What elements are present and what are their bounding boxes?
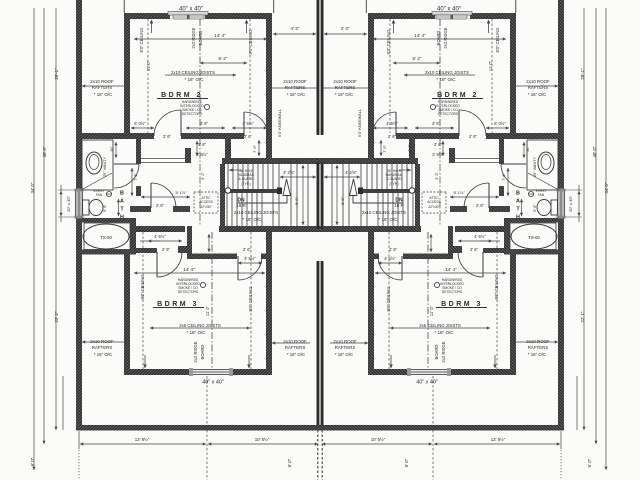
svg-text:7' 6": 7' 6"	[501, 173, 506, 181]
svg-text:* 16" O/C: * 16" O/C	[287, 92, 305, 97]
svg-text:* 16" O/C: * 16" O/C	[436, 77, 456, 82]
extension line above bedroom2 right corner	[273, 0, 275, 13]
svg-text:2x10 ROOF: 2x10 ROOF	[90, 79, 114, 84]
wall: bedroom 3 north segment under stairs	[219, 226, 323, 232]
bottom dimension line 10'5	[208, 443, 318, 445]
wall: tub room south wall	[82, 250, 136, 255]
roof rafter arrow upper left	[82, 85, 130, 87]
svg-text:2' 6": 2' 6"	[162, 247, 171, 252]
svg-text:B: B	[120, 190, 124, 196]
wall: bedroom 3 north segment under stairs (mirrored)	[317, 226, 421, 232]
dimension line window 30x40	[60, 191, 62, 216]
door: bath door	[114, 163, 139, 165]
kneewall arrow down bedroom3 left (mirrored)	[494, 355, 496, 367]
svg-text:2x6 CEILING JOISTS: 2x6 CEILING JOISTS	[179, 323, 221, 328]
svg-text:BDRM 2: BDRM 2	[437, 92, 479, 99]
dimension line 5-6 toilet (mirrored)	[521, 199, 523, 216]
svg-text:8'0" CEILING: 8'0" CEILING	[386, 30, 391, 55]
svg-text:13' 8½": 13' 8½"	[491, 437, 506, 442]
wall: bedroom 3 closet divider wall	[187, 226, 192, 259]
wall: hall south segment right of bdrm3 door	[173, 206, 190, 212]
svg-text:RAFTERS: RAFTERS	[285, 85, 306, 90]
wall: hall north jamb (mirrored)	[449, 148, 455, 163]
stairs: lower treads	[227, 193, 262, 226]
svg-text:BDRM 3: BDRM 3	[157, 301, 199, 308]
wall: tub room south wall (mirrored)	[504, 250, 558, 255]
roof rafter arrow mid (mirrored)	[323, 87, 368, 89]
svg-text:7' 0": 7' 0"	[382, 145, 387, 153]
dimension vertical closet 2-6	[208, 234, 210, 252]
svg-text:BOARD: BOARD	[200, 345, 205, 360]
kneewall arrow down bedroom3 right (mirrored)	[390, 355, 392, 367]
dimension line 14'4 bedroom2	[134, 38, 267, 40]
svg-text:11' 0": 11' 0"	[488, 60, 493, 71]
svg-text:3' 2": 3' 2"	[200, 172, 205, 180]
svg-text:8'0" CEILING: 8'0" CEILING	[495, 28, 500, 53]
extension line above bedroom2 left corner	[123, 0, 125, 13]
roof rafter arrow lower left (mirrored)	[512, 341, 558, 343]
svg-text:28'-1": 28'-1"	[580, 68, 585, 80]
extension line above bedroom2 left corner (mirrored)	[515, 0, 517, 13]
bottom dimension line 13'8	[80, 443, 206, 445]
wall: party wall upper segment (mirrored)	[321, 0, 323, 135]
dimension line 36 vanity (mirrored)	[523, 142, 525, 158]
svg-text:BOARD: BOARD	[434, 345, 439, 360]
svg-text:2' 6": 2' 6"	[469, 134, 478, 139]
svg-text:* 16" O/C: * 16" O/C	[528, 92, 546, 97]
window: 40x40 window in bedroom 2 top wall	[168, 12, 208, 20]
svg-text:14' 4": 14' 4"	[183, 267, 195, 272]
svg-text:B: B	[516, 190, 520, 196]
underline BDRM 3 left	[153, 307, 204, 309]
svg-text:4' 5½": 4' 5½"	[242, 121, 254, 126]
door: bath door (mirrored)	[501, 163, 526, 165]
svg-text:13' 8½": 13' 8½"	[135, 437, 150, 442]
wall: tub room north wall	[82, 218, 136, 223]
dimension line 14'4 bedroom3	[134, 272, 265, 274]
svg-text:(TYP.): (TYP.)	[389, 182, 398, 186]
door: bedroom 2 door (mirrored)	[458, 110, 460, 136]
wall: stairwell north wall	[222, 158, 323, 164]
svg-text:2x10 CEILING JOISTS: 2x10 CEILING JOISTS	[234, 210, 278, 215]
fixture: exhaust fan symbol	[106, 191, 111, 196]
svg-text:25" VANITY: 25" VANITY	[103, 157, 107, 178]
svg-text:2x10 ROOF: 2x10 ROOF	[526, 79, 550, 84]
svg-text:6' 0½": 6' 0½"	[134, 121, 146, 126]
dimension vertical 2'6.5 hall	[196, 141, 198, 156]
dimension vertical 7'6 bath (mirrored)	[507, 168, 509, 196]
bottom extension line under wall (mirrored)	[560, 431, 562, 449]
window: 30x40 opening in left wall (mirrored)	[557, 189, 566, 219]
door: bedroom 3 hall door (mirrored)	[488, 183, 490, 208]
margin line 48'0	[43, 8, 45, 444]
svg-text:2' 6": 2' 6"	[163, 134, 172, 139]
margin line 28'1 (mirrored)	[583, 8, 585, 430]
svg-text:5' 1⅞": 5' 1⅞"	[453, 190, 465, 195]
svg-text:22"x30": 22"x30"	[200, 205, 212, 209]
svg-text:DETECTORS: DETECTORS	[438, 112, 459, 116]
dimension vertical 7'6 bath	[131, 168, 133, 196]
door: bedroom 3 closet door left (mirrored)	[482, 252, 484, 277]
fixture: vanity sink	[86, 152, 102, 174]
smoke detector symbol right	[430, 104, 435, 109]
wall: bath east wall upper (mirrored)	[499, 139, 504, 164]
svg-text:H: H	[516, 214, 520, 220]
fixture: exhaust fan symbol (mirrored)	[528, 191, 533, 196]
attic access dashed box	[194, 192, 218, 213]
svg-text:DETECTORS: DETECTORS	[178, 290, 199, 294]
smoke detector symbol left	[204, 104, 209, 109]
svg-text:11' 0": 11' 0"	[429, 305, 434, 316]
hall centre line (mirrored)	[439, 139, 441, 226]
svg-text:40" x 40": 40" x 40"	[416, 379, 438, 385]
kneewall dashed line bedroom3 left	[142, 232, 144, 369]
door: bedroom 3 closet door left	[156, 252, 158, 277]
attic access dashed box (mirrored)	[422, 192, 446, 213]
dimension line 5'1 hall	[141, 196, 190, 198]
svg-text:ACCESS: ACCESS	[427, 200, 441, 204]
door: bedroom 3 closet door right (mirrored)	[401, 256, 403, 280]
hall centre line	[199, 139, 201, 226]
svg-text:2x10 ROOF: 2x10 ROOF	[283, 339, 307, 344]
wall: bath east wall jamb	[136, 186, 141, 196]
wall: party wall lower segment (mirrored)	[321, 261, 323, 425]
door: bedroom 2 door	[180, 110, 182, 136]
svg-text:8'0" CEILING: 8'0" CEILING	[248, 30, 253, 55]
svg-text:14' 4": 14' 4"	[445, 267, 457, 272]
svg-text:7' 0": 7' 0"	[227, 144, 232, 152]
svg-text:* 16" O/C: * 16" O/C	[335, 352, 353, 357]
dotted line below building corner	[78, 450, 80, 480]
svg-text:DETECTORS: DETECTORS	[442, 290, 463, 294]
svg-text:* 16" O/C: * 16" O/C	[528, 352, 546, 357]
dimension line 4'5.5 closet2 (mirrored)	[373, 127, 408, 129]
svg-text:5'0" KNEEWALL: 5'0" KNEEWALL	[278, 109, 282, 137]
dimension line 6'0.5 (mirrored)	[486, 127, 509, 129]
wall: bedroom 3 closet south wall	[130, 248, 157, 253]
wall: tub room north wall (mirrored)	[504, 218, 558, 223]
kneewall dashed line bedroom2 left (mirrored)	[491, 19, 493, 133]
svg-text:& GUARD: & GUARD	[386, 177, 402, 181]
svg-text:2' 6": 2' 6"	[156, 203, 165, 208]
stairs: landing lines (mirrored)	[332, 164, 367, 226]
svg-text:* 16" O/C: * 16" O/C	[242, 217, 262, 222]
margin line 28'1	[55, 8, 57, 430]
svg-text:16 R: 16 R	[236, 203, 246, 208]
underline BDRM 2 right	[432, 98, 483, 100]
svg-text:RAFTERS: RAFTERS	[335, 85, 356, 90]
wall: upper block top-left segment	[124, 13, 170, 19]
ridge line bedroom 3	[211, 232, 213, 369]
svg-text:2' 6½": 2' 6½"	[196, 152, 208, 157]
stairs: landing lines	[273, 164, 308, 226]
wall: bedroom2 south mid segment	[181, 133, 225, 139]
dimension line 5'2 bedroom2 (mirrored)	[393, 62, 440, 64]
wall: bedroom 3 closet2 lower wall right (mirrored)	[368, 254, 379, 260]
kneewall dashed line bedroom3 right	[250, 232, 252, 369]
wall: hall closet west wall (mirrored)	[409, 133, 415, 163]
svg-text:RAFTERS: RAFTERS	[92, 345, 113, 350]
extension line bottom left corner (mirrored)	[576, 376, 578, 430]
svg-text:2' 6": 2' 6"	[244, 134, 253, 139]
dimension line 4'3 top party	[273, 33, 316, 35]
site dashed line at party wall	[317, 430, 319, 480]
wall: bedroom 2 left wall (mirrored)	[510, 19, 516, 139]
bottom dimension line 10'5 (mirrored)	[322, 443, 432, 445]
svg-text:TS-60: TS-60	[100, 235, 113, 240]
svg-text:2' 6": 2' 6"	[243, 247, 252, 252]
wall: left outer wall (mirrored)	[558, 0, 564, 430]
svg-text:5' 1⅞": 5' 1⅞"	[175, 190, 187, 195]
svg-text:3' 2": 3' 2"	[434, 172, 439, 180]
wall: bedroom 2 right wall (mirrored)	[368, 19, 374, 163]
fixture: tub TS-60	[84, 223, 130, 250]
margin ticks bottom left	[54, 427, 57, 430]
wall: stairwell north wall (mirrored)	[317, 158, 418, 164]
svg-text:48' 0": 48' 0"	[42, 146, 47, 157]
svg-text:10' 5½": 10' 5½"	[255, 437, 270, 442]
dimension line 4'3 top party (mirrored)	[324, 33, 367, 35]
wall: upper block top-right segment (mirrored)	[368, 13, 435, 19]
dimension vertical 7'0 closet right	[258, 140, 260, 156]
dimension line bdrm3 door1	[148, 240, 182, 242]
smoke detector symbol left	[200, 282, 205, 287]
wall: hall south segment left of bdrm3 door (mirrored)	[489, 206, 510, 212]
wall: bedroom2 south jamb segment (mirrored)	[396, 133, 409, 139]
stairs: lower treads (mirrored)	[378, 193, 413, 226]
wall: bath top / bedroom2 south-west segment	[81, 133, 154, 139]
fixture: vanity sink (mirrored)	[538, 152, 554, 174]
wall: bedroom2 south jamb segment	[231, 133, 244, 139]
ceiling joists arrow bedroom3 (mirrored)	[390, 327, 490, 329]
wall: left outer wall	[76, 0, 82, 430]
kneewall arrow up bedroom2 left	[151, 21, 153, 33]
wall: stairwell west wall (mirrored)	[415, 164, 420, 232]
svg-text:FAN: FAN	[96, 193, 103, 197]
svg-text:RAFTERS: RAFTERS	[335, 345, 356, 350]
wall: bath top / bedroom2 south-west segment (mirrored)	[486, 133, 559, 139]
kneewall arrow up bedroom2 right (mirrored)	[393, 21, 395, 33]
svg-text:* 16" O/C: * 16" O/C	[94, 92, 112, 97]
svg-text:2x10 CEILING JOISTS: 2x10 CEILING JOISTS	[425, 70, 469, 75]
ceiling joists arrow bedroom2 (mirrored)	[404, 74, 475, 76]
svg-text:TS-60: TS-60	[528, 235, 541, 240]
wall: bedroom 3 bottom-left segment (mirrored)	[450, 369, 516, 375]
wall: bedroom2 south mid segment (mirrored)	[415, 133, 459, 139]
underline BDRM 3 right	[436, 307, 487, 309]
roof rafter arrow lower mid (mirrored)	[330, 342, 368, 344]
svg-text:5' 0": 5' 0"	[340, 197, 345, 205]
wall: party wall lower segment	[317, 261, 319, 425]
svg-text:H: H	[120, 214, 124, 220]
svg-text:BOARD: BOARD	[198, 31, 203, 46]
dimension line 36 vanity	[115, 142, 117, 158]
wall: stairwell west wall	[220, 164, 225, 232]
svg-text:FAN: FAN	[538, 193, 545, 197]
smoke detector symbol right	[434, 282, 439, 287]
wall: bedroom 3 closet divider wall (mirrored)	[448, 226, 453, 259]
roof rafter arrow lower left	[82, 341, 128, 343]
dimension line 3'6 closet	[186, 127, 225, 129]
margin line 34'0 (mirrored)	[605, 8, 607, 470]
window: 40x40 window in bedroom 3 bottom wall	[189, 368, 233, 376]
svg-text:16 R: 16 R	[394, 203, 404, 208]
svg-text:30" x 40": 30" x 40"	[568, 195, 573, 212]
svg-text:* 16" O/C: * 16" O/C	[287, 352, 305, 357]
window: 30x40 opening in left wall	[75, 189, 84, 219]
svg-text:22"x30": 22"x30"	[428, 205, 440, 209]
stairs: direction arrow	[237, 196, 287, 203]
svg-text:11' 0": 11' 0"	[146, 60, 151, 71]
wall: bedroom 3 closet south wall (mirrored)	[483, 248, 510, 253]
stairs: handrail guard (mirrored)	[362, 189, 415, 193]
extension line above bedroom2 right corner (mirrored)	[365, 0, 367, 13]
door: bedroom 3 hall door	[150, 183, 152, 208]
ridge line bedroom 2	[199, 19, 201, 133]
svg-text:6' 0": 6' 0"	[404, 458, 409, 467]
roof rafter arrow lower mid	[272, 342, 310, 344]
dimension line 4'2 stairs (mirrored)	[324, 176, 360, 178]
svg-text:RAFTERS: RAFTERS	[528, 85, 549, 90]
svg-text:40" x 40": 40" x 40"	[437, 7, 461, 13]
kneewall dashed line bedroom3 left (mirrored)	[496, 232, 498, 369]
svg-text:3' 6": 3' 6"	[432, 121, 441, 126]
svg-text:RAFTERS: RAFTERS	[528, 345, 549, 350]
svg-text:40" x 40": 40" x 40"	[202, 379, 224, 385]
svg-text:ACCESS: ACCESS	[199, 200, 213, 204]
door: bedroom 2 closet door (mirrored)	[395, 112, 397, 136]
svg-text:6' 0": 6' 0"	[587, 458, 592, 467]
stairs: upper treads	[228, 164, 268, 189]
wall: bedroom 3 north segment 1 (mirrored)	[455, 226, 510, 232]
bottom dimension line 13'8 (mirrored)	[434, 443, 560, 445]
roof rafter arrow upper left (mirrored)	[510, 85, 558, 87]
svg-text:BDRM 2: BDRM 2	[161, 92, 203, 99]
svg-text:8'0" CEILING: 8'0" CEILING	[248, 287, 253, 312]
svg-text:2x10 ROOF: 2x10 ROOF	[333, 79, 357, 84]
stairs: handrail guard	[225, 189, 278, 193]
svg-text:4' 3": 4' 3"	[291, 26, 300, 31]
wall: bedroom 3 closet2 lower wall left	[192, 254, 237, 260]
door: bedroom 3 closet door right	[237, 256, 239, 280]
wall: bedroom 3 closet south jamb (mirrored)	[452, 246, 462, 253]
dimension line 5'2 bedroom2	[200, 62, 247, 64]
svg-text:2' 6½": 2' 6½"	[432, 152, 444, 157]
svg-text:4' 5½": 4' 5½"	[154, 234, 166, 239]
site dashed line below unit (mirrored)	[432, 376, 434, 480]
svg-text:2x2 RIDGE: 2x2 RIDGE	[193, 341, 198, 362]
svg-text:2' 6": 2' 6"	[389, 247, 398, 252]
svg-text:36": 36"	[526, 146, 530, 152]
svg-text:& GUARD: & GUARD	[238, 177, 254, 181]
svg-text:2x10 ROOF: 2x10 ROOF	[90, 339, 114, 344]
wall: bedroom 3 north segment 1	[130, 226, 185, 232]
svg-text:4' 5½": 4' 5½"	[474, 234, 486, 239]
wall: hall south segment left of bdrm3 door	[130, 206, 151, 212]
wall: upper block top-right segment	[205, 13, 272, 19]
dimension line 5-6 toilet	[118, 199, 120, 216]
wall: bottom outer wall	[76, 425, 320, 431]
dimension line window 30x40 (mirrored)	[578, 191, 580, 216]
window: 40x40 window in bedroom 2 top wall (mirrored)	[432, 12, 472, 20]
svg-text:4' 2⅝": 4' 2⅝"	[345, 170, 357, 175]
wall: bath east wall jamb (mirrored)	[499, 186, 504, 196]
opening: cased opening bath-hall	[141, 158, 185, 160]
wall: bedroom 2 left wall	[124, 19, 130, 139]
wall: bedroom 3 bottom-right segment	[232, 369, 272, 375]
dimension vertical 7'0 closet right (mirrored)	[380, 140, 382, 156]
svg-text:DETECTORS: DETECTORS	[182, 112, 203, 116]
margin line 48'0 (mirrored)	[595, 8, 597, 444]
svg-text:8'0" CEILING: 8'0" CEILING	[140, 275, 145, 300]
dimension line tub arrow	[140, 240, 160, 242]
window: 40x40 window in bedroom 3 bottom wall (mirrored)	[407, 368, 451, 376]
svg-text:2x2 RIDGE: 2x2 RIDGE	[441, 341, 446, 362]
stairs: upper treads (mirrored)	[372, 164, 412, 189]
dimension line 3'6 closet (mirrored)	[415, 127, 454, 129]
fixture: toilet	[83, 200, 90, 215]
wall: bedroom 3 closet2 lower wall right	[261, 254, 272, 260]
svg-text:2x10 ROOF: 2x10 ROOF	[283, 79, 307, 84]
svg-text:2x2 RIDGE: 2x2 RIDGE	[443, 27, 448, 48]
svg-text:5' 2": 5' 2"	[219, 56, 228, 61]
svg-text:2' 6": 2' 6"	[470, 247, 479, 252]
svg-text:34' 0": 34' 0"	[30, 182, 35, 193]
dimension line 14'4 bedroom3 (mirrored)	[375, 272, 506, 274]
svg-text:A: A	[120, 198, 124, 204]
site dashed line below unit	[206, 376, 208, 480]
svg-text:36": 36"	[110, 146, 114, 152]
svg-text:7' 0": 7' 0"	[407, 144, 412, 152]
wall: bottom outer wall (mirrored)	[320, 425, 564, 431]
svg-text:4' 5½": 4' 5½"	[244, 256, 256, 261]
fixture: bath vanity counter (mirrored)	[527, 140, 558, 190]
svg-text:* 16" O/C: * 16" O/C	[184, 77, 204, 82]
svg-text:14' 4": 14' 4"	[414, 33, 426, 38]
svg-text:8'0" CEILING: 8'0" CEILING	[139, 28, 144, 53]
ceiling joists arrow bedroom2	[165, 74, 236, 76]
svg-text:5' 6": 5' 6"	[533, 204, 537, 212]
svg-text:5' 6": 5' 6"	[103, 204, 107, 212]
dimension vertical stairs right (mirrored)	[336, 165, 338, 225]
kneewall arrow up bedroom2 right	[246, 21, 248, 33]
svg-text:2' 6": 2' 6"	[388, 134, 397, 139]
svg-text:22' 1": 22' 1"	[580, 311, 585, 322]
dimension line bdrm3 door2	[238, 262, 262, 264]
svg-text:5' 2": 5' 2"	[413, 56, 422, 61]
wall: bedroom 3 left wall	[124, 254, 130, 369]
svg-text:25" VANITY: 25" VANITY	[533, 157, 537, 178]
wall: tub room east wall (mirrored)	[504, 218, 510, 251]
svg-text:2' 6": 2' 6"	[476, 203, 485, 208]
svg-text:A: A	[516, 198, 520, 204]
dotted line below building corner (mirrored)	[560, 450, 562, 480]
svg-text:3' 6": 3' 6"	[200, 121, 209, 126]
fixture: toilet (mirrored)	[551, 200, 558, 215]
wall: bedroom 3 closet2 lower wall left (mirrored)	[403, 254, 448, 260]
svg-text:14' 4": 14' 4"	[214, 33, 226, 38]
svg-text:3' 6": 3' 6"	[434, 142, 443, 147]
svg-text:5'0" KNEEWALL: 5'0" KNEEWALL	[358, 109, 362, 137]
dimension line 5'1 hall (mirrored)	[450, 196, 499, 198]
roof rafter arrow mid	[272, 87, 317, 89]
svg-text:4' 3": 4' 3"	[341, 26, 350, 31]
svg-text:RAFTERS: RAFTERS	[92, 85, 113, 90]
svg-text:4' 5½": 4' 5½"	[386, 121, 398, 126]
svg-text:* 16" O/C: * 16" O/C	[94, 352, 112, 357]
svg-text:40" x 40": 40" x 40"	[179, 7, 203, 13]
svg-text:48' 0": 48' 0"	[592, 146, 597, 157]
